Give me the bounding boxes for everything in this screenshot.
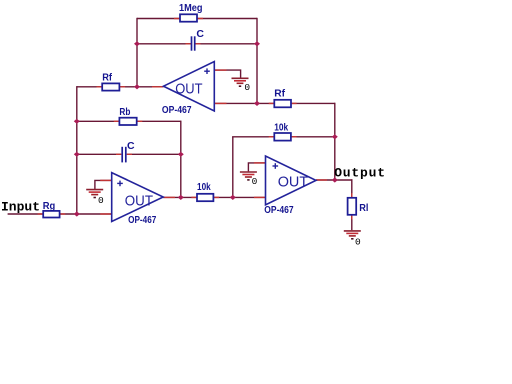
wire capacitor C1 left (137, 43, 191, 45)
wire top loop left rail (136, 18, 138, 87)
wire capacitor C1 right (195, 43, 257, 45)
wire Rf2 right to right rail (291, 102, 335, 104)
resistor Rf1 (102, 83, 119, 90)
svg-text:C: C (127, 140, 135, 152)
junction at Rf1 row / left loop rail bottom (134, 84, 140, 89)
pin stubs resistor 10k upper (269, 136, 297, 138)
wire top feedback loop top segment (left half, to 1Meg) (137, 18, 180, 20)
wire 10k (lower) to U3 inverting input (213, 196, 265, 198)
junction at Rf2 row / right loop rail bottom (254, 101, 260, 106)
wire 10k (upper) row right (291, 136, 335, 138)
svg-text:OUT: OUT (175, 80, 202, 97)
junction at C2 row / left rail (74, 152, 80, 157)
resistor 10k (upper) (274, 133, 291, 141)
svg-text:10k: 10k (197, 181, 211, 193)
svg-text:Rb: Rb (119, 106, 130, 118)
pin stubs capacitor C2 (116, 153, 132, 155)
svg-text:0: 0 (244, 82, 250, 93)
resistor Rf2 (274, 100, 291, 108)
pin stubs resistor Rf2 (269, 102, 297, 104)
wire input right of Rg to U2 inverting input (60, 213, 112, 215)
wire top feedback loop top segment (right half, from 1Meg) (197, 18, 257, 20)
op-amp U1 (top, pointing left) (164, 62, 215, 112)
pin stubs resistor Rb (114, 120, 143, 122)
junction at Rb row / left rail (74, 119, 80, 124)
junction at U3 input row / riser2 bottom (230, 195, 236, 200)
pin stubs resistor Rl (351, 193, 353, 219)
wire Rf1 row left (77, 86, 102, 88)
ground G1 (at U1 plus input) (232, 78, 249, 86)
resistor Rl (348, 198, 357, 215)
pin stubs resistor Rf1 (97, 86, 126, 88)
wire Rb row left (77, 120, 120, 122)
wire U3 plus input to ground G3 (248, 163, 265, 172)
wire riser2 from 10k (upper) row down to U3 input row (232, 137, 234, 198)
svg-text:OUT: OUT (278, 173, 309, 190)
svg-text:0: 0 (252, 176, 258, 187)
junction at C2 row / riser (178, 152, 184, 157)
svg-text:Rf: Rf (274, 87, 285, 99)
wire riser from Rb row down to U2 output row (180, 121, 182, 198)
op-amp U1 plus sign (204, 68, 210, 74)
svg-text:Input: Input (1, 199, 40, 214)
resistor Rg (43, 211, 59, 218)
ground G2 (at U2 plus input) (86, 190, 103, 198)
wire top loop right rail (256, 18, 258, 104)
wire U1 inverting input to Rf2 (214, 102, 274, 104)
ground G3 (at U3 plus input) (240, 172, 257, 180)
svg-text:Output: Output (334, 165, 386, 180)
wire U2 plus input to ground G2 (95, 180, 112, 189)
wire right vertical rail (334, 103, 336, 180)
svg-text:OUT: OUT (125, 193, 153, 210)
svg-text:OP-467: OP-467 (128, 214, 156, 226)
pin stubs op-amp U2 (100, 180, 175, 214)
svg-text:1Meg: 1Meg (179, 2, 203, 14)
junction at C1 right / right loop rail (254, 41, 260, 46)
wire U3 output to Output node (316, 179, 353, 181)
wire U2 output to 10k (lower) (163, 196, 197, 198)
junction at output row / right rail bottom (332, 177, 338, 182)
op-amp U3 (right, pointing right) (266, 156, 317, 205)
resistor Rb (119, 118, 136, 125)
svg-text:Rg: Rg (43, 200, 56, 212)
junction at C1 left / left loop rail (134, 41, 140, 46)
pin stubs resistor 10k lower (191, 196, 219, 198)
wire Rf1 row right to op-amp U1 output (119, 86, 163, 88)
pin stubs op-amp U1 (152, 70, 227, 103)
svg-text:OP-467: OP-467 (162, 104, 192, 116)
wire capacitor C2 left (77, 153, 121, 155)
capacitor C2 (122, 147, 126, 163)
wire input left of Rg (8, 213, 44, 215)
svg-text:C: C (196, 28, 204, 40)
junction at input row / left rail bottom (74, 211, 80, 216)
capacitor C1 (192, 36, 195, 50)
svg-text:Rf: Rf (102, 71, 112, 83)
op-amp U2 plus sign (117, 181, 123, 187)
svg-text:10k: 10k (274, 122, 288, 134)
pin stubs capacitor C1 (186, 43, 201, 45)
pin stubs resistor 1Meg (174, 18, 203, 20)
wire U1 plus input to ground G1 (214, 70, 240, 78)
op-amp U2 (lower left, pointing right) (112, 173, 164, 222)
ground G4 (below Rl) (344, 231, 361, 239)
op-amp U3 plus sign (273, 163, 279, 169)
svg-text:OP-467: OP-467 (264, 204, 293, 216)
wire capacitor C2 right (127, 153, 181, 155)
wire Output node down to Rl (351, 179, 353, 198)
wire left vertical rail (76, 86, 78, 214)
pin stubs resistor Rg (38, 213, 66, 215)
pin stubs op-amp U3 (254, 163, 327, 198)
junction at U2 output row / riser bottom (178, 195, 184, 200)
wire 10k (upper) row left (232, 136, 274, 138)
wire Rl bottom to ground G4 (351, 215, 353, 230)
wire Rb row right (137, 120, 181, 122)
svg-text:Rl: Rl (359, 202, 368, 214)
svg-text:0: 0 (98, 195, 104, 206)
svg-text:0: 0 (355, 237, 361, 248)
resistor 1Meg (180, 14, 197, 21)
resistor 10k (lower) (197, 194, 213, 201)
junction at 10k upper row / right rail (332, 134, 338, 139)
